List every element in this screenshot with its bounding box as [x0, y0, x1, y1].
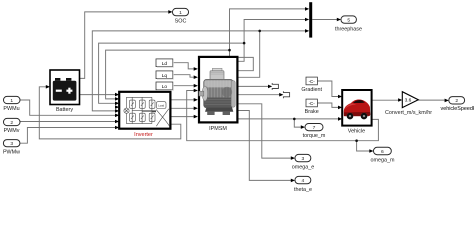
- arrows into Vehicle: [338, 95, 342, 99]
- svg-text:omega_m: omega_m: [371, 157, 395, 163]
- phase taps: [132, 111, 156, 112]
- wire Lq to IPMSM in2: [173, 75, 195, 78]
- constant Brake: [305, 99, 319, 115]
- mux threephase: [309, 2, 312, 37]
- block IPMSM: [199, 57, 238, 132]
- wire Vehicle speed out to gain: [372, 99, 399, 101]
- wire PWMu to Inverter in6: [20, 100, 116, 115]
- outport 5 threephase: [335, 16, 362, 33]
- svg-text:Brake: Brake: [305, 109, 319, 115]
- wire Inverter phase out2 to IPMSM in6: [170, 107, 195, 109]
- wire IPMSM theta_e out to theta_e outport: [237, 111, 292, 181]
- wire Ld to IPMSM in1: [173, 63, 195, 69]
- svg-text:Vehicle: Vehicle: [348, 128, 365, 134]
- svg-text:Inverter: Inverter: [134, 132, 153, 138]
- outport 6 omega_m: [371, 147, 395, 163]
- arrows into Inverter: [115, 93, 119, 97]
- wire torque branch to torque_m outport: [294, 119, 302, 127]
- wire Vehicle omega out feedback to IPMSM in4 (net OMEGA): [187, 91, 379, 141]
- junction node phase-c: [258, 30, 261, 33]
- arrows into terminators: [268, 85, 272, 89]
- svg-text:7: 7: [313, 125, 316, 131]
- motor image: [199, 68, 235, 115]
- wire Inverter battery-current out to Battery input (net BATTFB): [39, 87, 181, 139]
- wire IPMSM out5 to terminator T2: [237, 94, 280, 96]
- wire phase-c: IPMSM out3 up to Mux in3: [237, 31, 306, 77]
- wire Lo to IPMSM in3: [173, 85, 195, 87]
- svg-text:Battery: Battery: [56, 107, 73, 113]
- svg-text:Lq: Lq: [162, 73, 168, 79]
- inport 2 PWMv: [4, 118, 21, 134]
- wire phase-c wrap back to Inverter in5: [92, 31, 259, 111]
- wire Inverter phase out3 to IPMSM in7: [170, 116, 195, 118]
- block Vehicle: [342, 90, 371, 134]
- constant Lq: [156, 71, 173, 79]
- terminator T2: [283, 91, 289, 98]
- svg-text:2: 2: [10, 120, 13, 126]
- inport 3 PWMw: [3, 140, 20, 156]
- svg-text:3: 3: [302, 156, 305, 162]
- arrows into IPMSM: [194, 67, 198, 71]
- svg-text:6: 6: [381, 149, 384, 155]
- svg-text:1: 1: [10, 98, 13, 104]
- svg-text:1: 1: [179, 10, 182, 16]
- svg-text:Gradient: Gradient: [301, 87, 322, 93]
- svg-text:theta_e: theta_e: [294, 187, 312, 193]
- junction node phase-a: [243, 42, 246, 45]
- gain Convert_m/s_km/hr: [385, 92, 432, 117]
- IGBT cells bottom row: [130, 113, 136, 121]
- wire phase-b: IPMSM out2 up to Mux in1: [230, 9, 307, 71]
- wire Battery SOC out to SOC outport: [80, 12, 170, 79]
- svg-text:Convert_m/s_km/hr: Convert_m/s_km/hr: [385, 110, 432, 116]
- outport 7 torque_m: [303, 124, 326, 139]
- svg-text:IPMSM: IPMSM: [209, 126, 227, 132]
- block Inverter: [119, 92, 170, 138]
- wire gain out to vehicleSpeed outport: [418, 99, 446, 101]
- terminator T1: [272, 83, 278, 90]
- svg-text:3: 3: [10, 141, 13, 147]
- svg-text:5: 5: [347, 17, 350, 23]
- arrow into gain: [398, 98, 402, 102]
- outport 1 SOC: [173, 8, 189, 24]
- svg-text:omega_e: omega_e: [292, 165, 314, 171]
- wire omega branch to omega_m outport: [357, 141, 371, 151]
- junction node torque: [293, 118, 296, 121]
- arrows into outports: [168, 10, 172, 14]
- wire Inverter phase out1 to IPMSM in5: [170, 99, 195, 101]
- IGBT cells top row: [130, 100, 136, 108]
- constant Lo: [156, 82, 173, 90]
- constant Gradient: [301, 77, 322, 93]
- car image: [344, 99, 371, 119]
- svg-text:Ld: Ld: [162, 61, 168, 67]
- svg-text:Lo: Lo: [162, 84, 168, 90]
- source circle: [124, 108, 129, 113]
- wire IPMSM torque out to Vehicle in3: [237, 118, 338, 120]
- wire phase-b wrap back to Inverter in2: [106, 50, 230, 99]
- inport 1 PWMu: [3, 96, 20, 112]
- svg-text:-C-: -C-: [309, 79, 316, 84]
- svg-text:torque_m: torque_m: [303, 133, 326, 139]
- svg-text:PWMv: PWMv: [4, 128, 20, 134]
- wire Mux out to threephase outport: [312, 19, 338, 21]
- svg-text:3.6: 3.6: [405, 98, 412, 104]
- constant Ld: [156, 59, 173, 67]
- load box: [156, 102, 166, 109]
- junction node phase-b: [228, 49, 231, 52]
- wire IPMSM omega_e out to omega_e outport: [237, 104, 292, 158]
- bridge legs: [132, 97, 152, 123]
- wire IPMSM out4 to terminator T1: [237, 85, 269, 87]
- outport 2 vehicleSpeed: [441, 97, 474, 112]
- svg-text:threephase: threephase: [335, 27, 362, 33]
- outport 3 omega_e: [292, 154, 314, 170]
- svg-text:PWMu: PWMu: [3, 106, 19, 112]
- wire Battery power out to Inverter in1: [80, 94, 116, 96]
- wire Brake to Vehicle in2: [317, 103, 338, 107]
- svg-text:-C-: -C-: [309, 101, 316, 106]
- svg-text:Load: Load: [158, 104, 164, 108]
- svg-text:PWMw: PWMw: [3, 150, 20, 156]
- svg-text:SOC: SOC: [175, 18, 187, 24]
- junction node omega: [355, 139, 358, 142]
- arrows into Mux: [305, 7, 309, 11]
- arrow into Battery: [46, 85, 50, 89]
- block Battery: [50, 70, 80, 113]
- svg-text:vehicleSpeedKmHr: vehicleSpeedKmHr: [441, 106, 474, 112]
- outport 4 theta_e: [294, 176, 312, 193]
- wire PWMv to Inverter in7: [20, 121, 116, 123]
- wire phase-a: IPMSM out1 up to Mux in2: [237, 20, 306, 62]
- svg-text:4: 4: [302, 178, 305, 184]
- arrowheads: [46, 7, 449, 182]
- wire Gradient to Vehicle in1: [317, 81, 338, 97]
- wire phase-a wrap back to Inverter in3: [99, 43, 245, 103]
- svg-text:2: 2: [455, 98, 458, 104]
- wire PWMw to Inverter in8: [20, 128, 116, 144]
